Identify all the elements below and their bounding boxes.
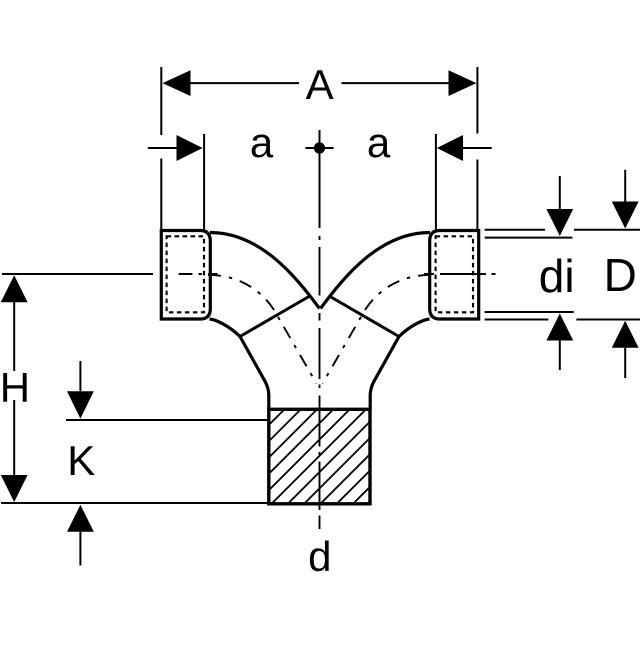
arrowhead D bottom <box>612 321 639 348</box>
vertical centerline dash-dot <box>319 236 321 529</box>
right socket depth dashed rect <box>436 236 473 312</box>
K top reference line <box>66 419 269 421</box>
K arrow stem bottom <box>79 532 81 566</box>
D arrow stem top <box>624 170 626 202</box>
svg-text:H: H <box>0 364 30 411</box>
body outline right <box>370 319 429 409</box>
svg-text:D: D <box>604 249 637 301</box>
arrowhead a left <box>177 135 203 161</box>
extension line A right <box>476 67 478 231</box>
right socket <box>430 231 479 320</box>
D reference line bottom <box>485 319 549 321</box>
arrowhead a right <box>437 135 463 161</box>
H extension line top <box>2 273 153 275</box>
arrowhead D top <box>612 202 639 229</box>
svg-text:a: a <box>250 119 274 166</box>
H/K bottom reference line <box>1 502 269 504</box>
arrowhead A right <box>449 70 477 96</box>
crotch seam line right <box>329 296 399 337</box>
extension line A left <box>160 67 162 231</box>
D arrow stem bottom <box>624 348 626 378</box>
outer curve left arm <box>210 233 320 309</box>
svg-text:d: d <box>308 533 331 580</box>
crotch seam line left <box>240 296 310 337</box>
svg-text:A: A <box>306 61 334 108</box>
dimension line H <box>13 302 15 371</box>
K arrow stem top <box>79 361 81 391</box>
left socket depth dashed rect <box>167 236 204 312</box>
body outline left <box>210 319 269 409</box>
dimension tail a right <box>463 147 492 149</box>
svg-text:di: di <box>539 250 575 302</box>
extension line a right <box>435 134 437 231</box>
arrowhead di bottom <box>546 314 573 341</box>
arrowhead H bottom <box>1 475 28 502</box>
left socket <box>161 231 210 320</box>
di reference line top <box>485 237 573 239</box>
svg-text:a: a <box>367 119 391 166</box>
di arrow stem top <box>559 176 561 210</box>
extension line a left <box>203 134 205 231</box>
outer curve right arm <box>321 233 431 309</box>
di arrow stem bottom <box>559 341 561 371</box>
arrowhead di top <box>546 209 573 236</box>
arrowhead A left <box>163 70 191 96</box>
dimension line A <box>191 82 300 84</box>
curved centerline left arm <box>208 275 317 384</box>
dimension tail a left <box>148 147 177 149</box>
horizontal centerline left socket <box>179 273 218 275</box>
D reference line top <box>485 229 545 231</box>
spigot hatched section <box>269 404 470 513</box>
curved centerline right arm <box>323 275 432 384</box>
center point tick vertical + centerline solid part <box>319 130 321 228</box>
center point tick horizontal <box>305 147 333 149</box>
horizontal centerline right socket <box>424 273 496 275</box>
arrowhead K top <box>67 391 94 418</box>
svg-text:K: K <box>67 437 95 484</box>
arrowhead H top <box>1 275 28 302</box>
arrowhead K bottom <box>67 505 94 532</box>
di reference line bottom <box>485 311 574 313</box>
center point dot <box>314 142 325 153</box>
